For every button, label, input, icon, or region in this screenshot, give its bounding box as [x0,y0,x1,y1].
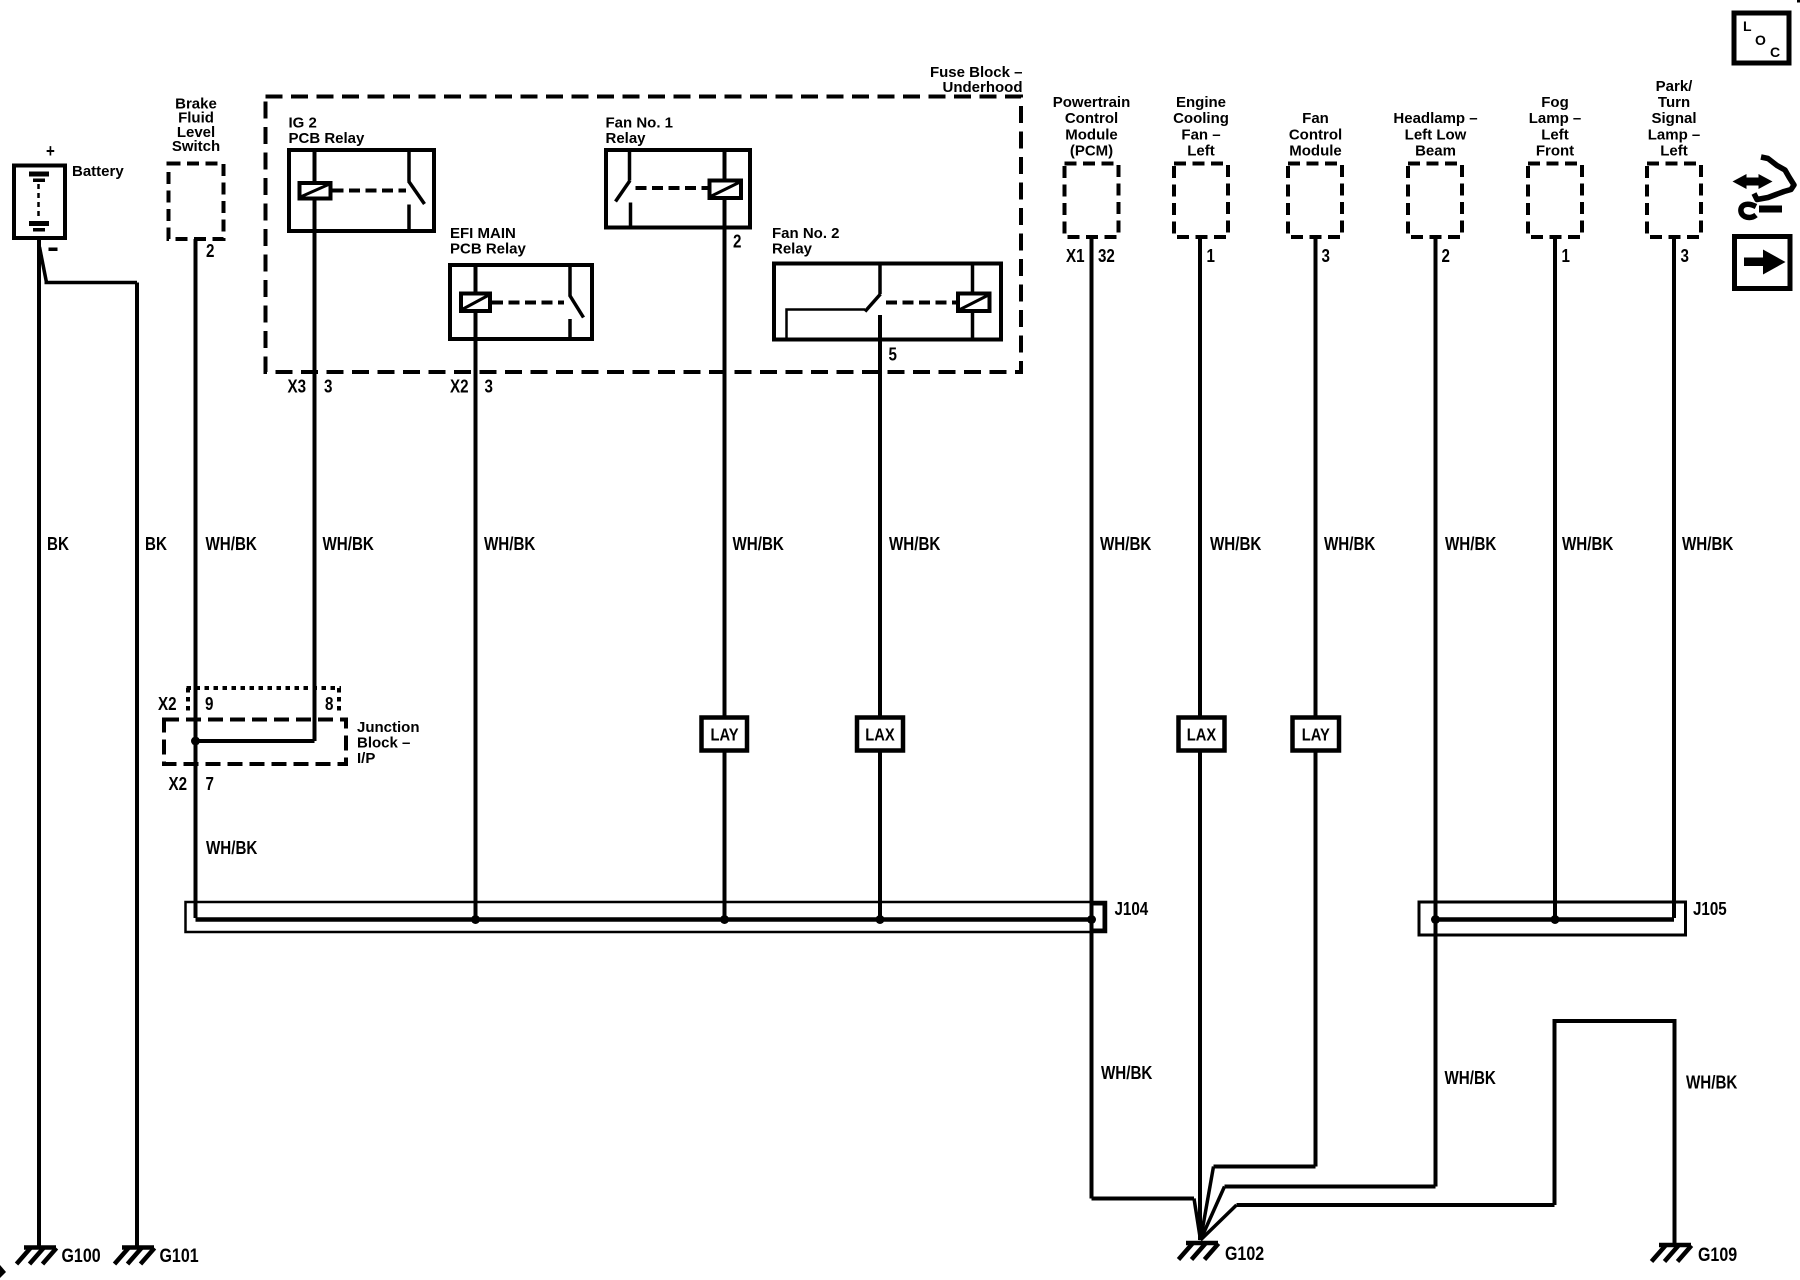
svg-text:Lamp –: Lamp – [1648,126,1701,143]
svg-text:WH/BK: WH/BK [1562,534,1614,555]
svg-text:7: 7 [206,774,214,795]
svg-text:BK: BK [47,534,70,555]
svg-text:Switch: Switch [172,138,220,155]
svg-text:BK: BK [145,534,168,555]
svg-text:EFI MAIN: EFI MAIN [450,225,516,242]
svg-text:32: 32 [1098,246,1115,267]
svg-text:WH/BK: WH/BK [1445,1068,1497,1089]
svg-text:2: 2 [206,241,214,262]
svg-text:Block –: Block – [357,735,410,752]
svg-text:LAX: LAX [865,725,895,744]
svg-text:Battery: Battery [72,163,124,180]
svg-text:Engine: Engine [1176,94,1226,111]
svg-text:WH/BK: WH/BK [1101,1063,1153,1084]
svg-text:WH/BK: WH/BK [323,534,375,555]
svg-text:WH/BK: WH/BK [1100,534,1152,555]
svg-text:X2: X2 [450,376,469,397]
svg-text:G100: G100 [62,1245,101,1267]
svg-text:X2: X2 [158,694,177,715]
svg-text:WH/BK: WH/BK [1686,1072,1738,1093]
svg-text:+: + [46,141,55,162]
svg-text:Signal: Signal [1651,110,1696,127]
svg-text:LAX: LAX [1187,725,1217,744]
svg-text:Park/: Park/ [1656,78,1694,95]
svg-text:WH/BK: WH/BK [1210,534,1262,555]
svg-text:G101: G101 [160,1245,199,1267]
svg-text:LAY: LAY [710,725,738,744]
svg-text:Fan: Fan [1302,110,1329,127]
svg-text:G102: G102 [1225,1243,1264,1265]
svg-text:Control: Control [1289,126,1342,143]
svg-text:3: 3 [1681,246,1689,267]
svg-text:Left Low: Left Low [1405,126,1467,143]
svg-text:Module: Module [1065,126,1118,143]
svg-text:Left: Left [1187,143,1215,160]
svg-text:WH/BK: WH/BK [889,534,941,555]
svg-text:Left: Left [1541,126,1569,143]
svg-text:L: L [1743,18,1752,34]
svg-text:J105: J105 [1693,899,1727,920]
svg-text:2: 2 [733,231,741,252]
svg-text:Fan –: Fan – [1181,126,1220,143]
svg-text:WH/BK: WH/BK [1682,534,1734,555]
svg-text:(PCM): (PCM) [1070,143,1113,160]
svg-text:Powertrain: Powertrain [1053,94,1131,111]
svg-text:PCB Relay: PCB Relay [450,241,527,258]
svg-text:1: 1 [1207,246,1215,267]
svg-text:WH/BK: WH/BK [206,534,258,555]
svg-text:WH/BK: WH/BK [733,534,785,555]
svg-text:Fan No. 2: Fan No. 2 [772,225,840,242]
svg-text:G109: G109 [1698,1244,1737,1266]
svg-text:Junction: Junction [357,719,420,736]
svg-text:Headlamp –: Headlamp – [1393,110,1477,127]
svg-text:X3: X3 [288,376,307,397]
svg-text:X1: X1 [1066,246,1085,267]
svg-text:Module: Module [1289,143,1342,160]
svg-text:WH/BK: WH/BK [484,534,536,555]
svg-text:5: 5 [889,344,897,365]
svg-text:I/P: I/P [357,750,375,767]
svg-text:WH/BK: WH/BK [1324,534,1376,555]
svg-text:O: O [1755,32,1766,48]
svg-text:3: 3 [485,376,493,397]
svg-text:1: 1 [1562,246,1570,267]
svg-text:C: C [1770,44,1780,60]
svg-text:LAY: LAY [1302,725,1330,744]
svg-text:9: 9 [205,694,213,715]
svg-text:Lamp –: Lamp – [1529,110,1582,127]
svg-text:Fan No. 1: Fan No. 1 [606,115,674,132]
svg-text:Left: Left [1660,143,1688,160]
svg-text:Control: Control [1065,110,1118,127]
svg-text:3: 3 [1322,246,1330,267]
svg-text:Beam: Beam [1415,143,1456,160]
svg-text:Cooling: Cooling [1173,110,1229,127]
svg-text:8: 8 [325,694,333,715]
svg-text:Turn: Turn [1658,94,1690,111]
svg-text:J104: J104 [1115,899,1149,920]
svg-text:WH/BK: WH/BK [1445,534,1497,555]
svg-text:PCB Relay: PCB Relay [289,130,366,147]
svg-text:Underhood: Underhood [943,79,1023,96]
svg-text:Relay: Relay [606,130,647,147]
svg-text:X2: X2 [169,774,188,795]
svg-text:2: 2 [1442,246,1450,267]
svg-text:WH/BK: WH/BK [206,838,258,859]
svg-text:Front: Front [1536,143,1574,160]
svg-text:Fog: Fog [1541,94,1569,111]
svg-text:IG 2: IG 2 [289,115,317,132]
svg-text:3: 3 [324,376,332,397]
svg-text:Relay: Relay [772,241,813,258]
